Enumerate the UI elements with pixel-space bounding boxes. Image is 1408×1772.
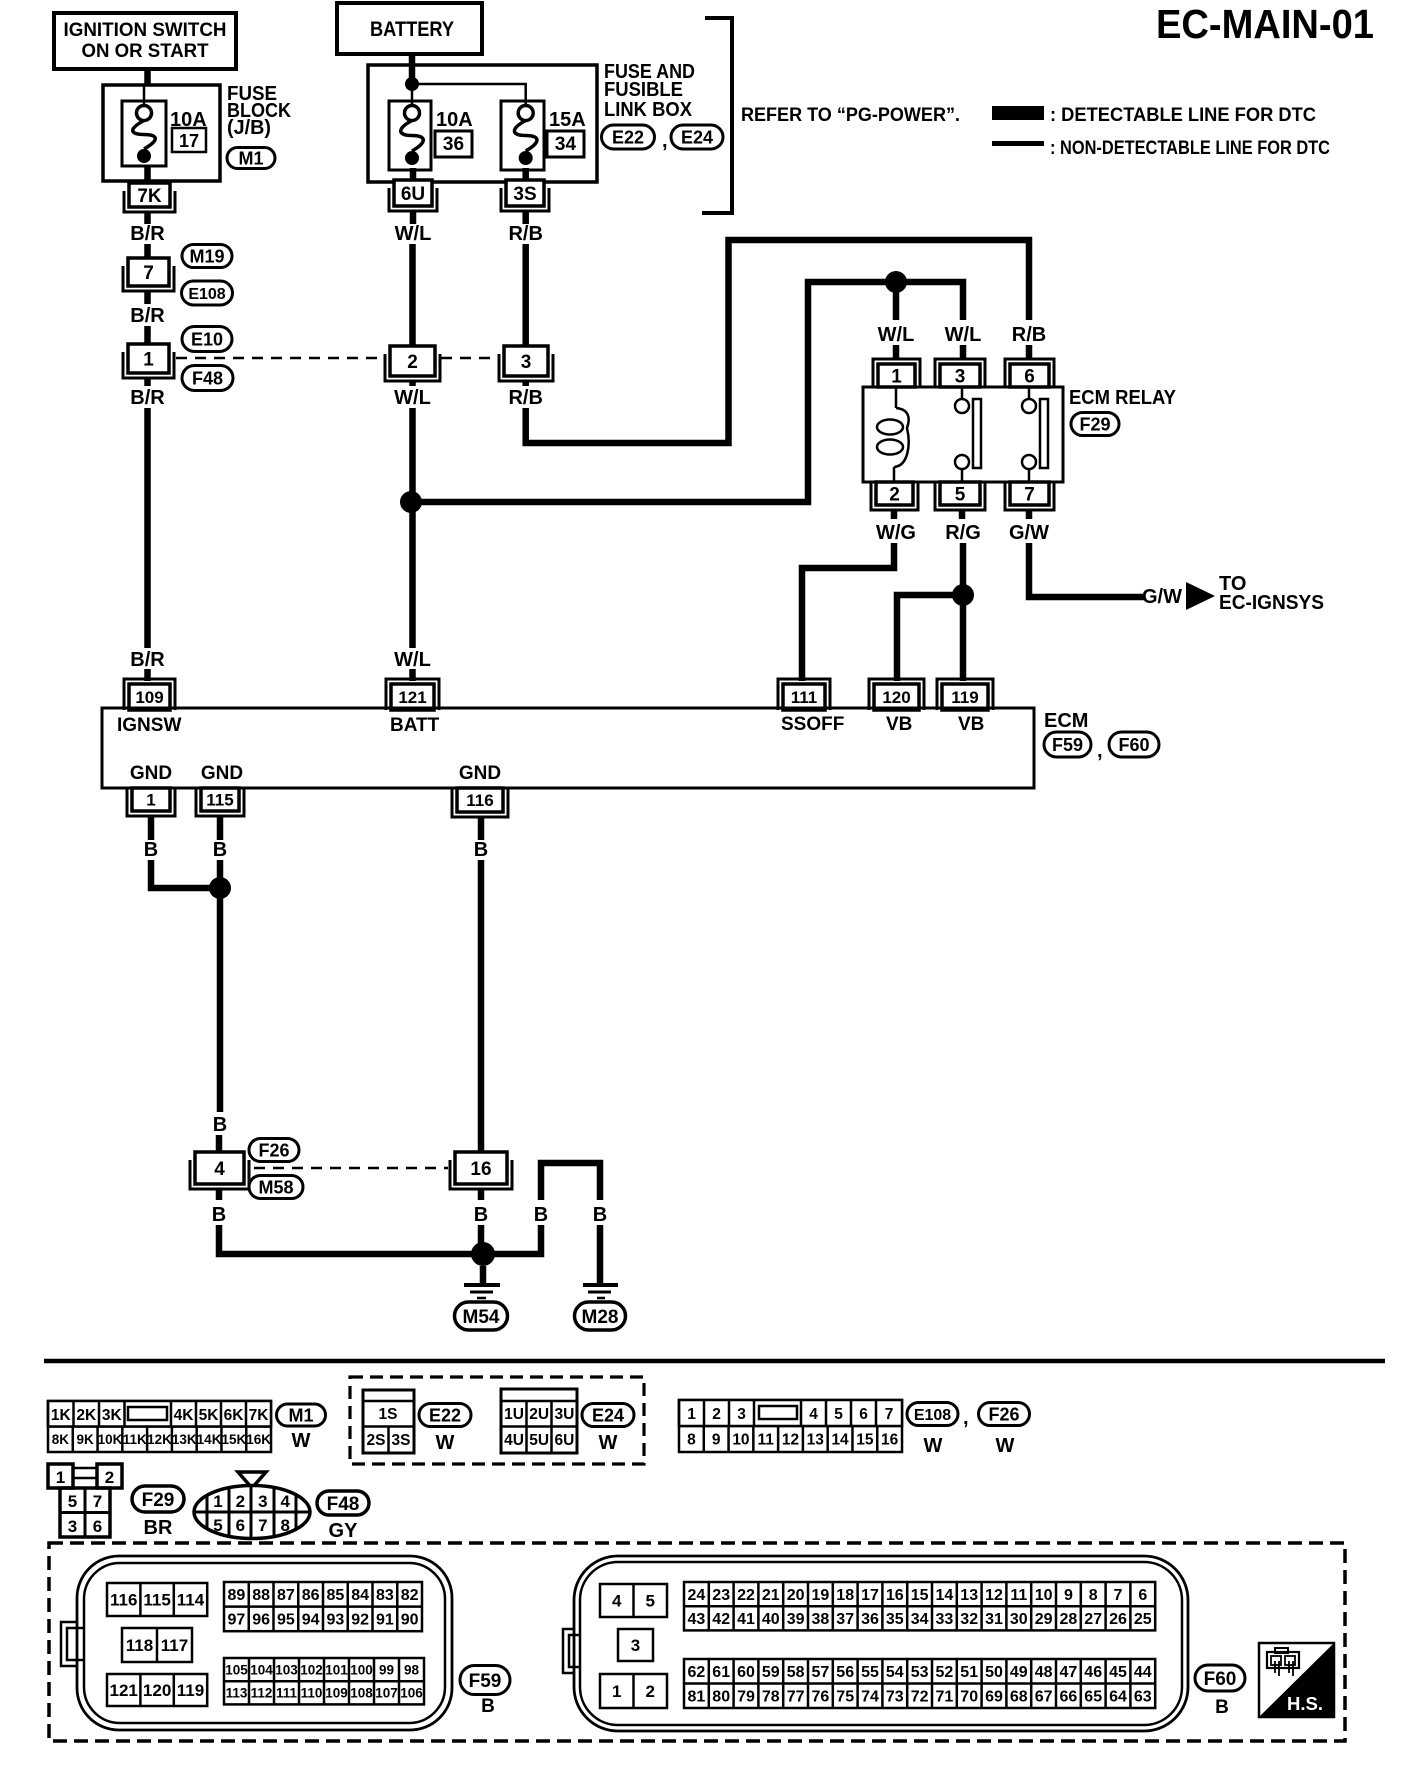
svg-text:B: B: [534, 1204, 548, 1226]
svg-text:GND: GND: [459, 763, 501, 784]
connector F48 oval: [317, 1491, 369, 1515]
svg-text:F48: F48: [192, 368, 223, 388]
wire: [1026, 510, 1033, 519]
wire: [891, 510, 898, 519]
separator line: [44, 1359, 1385, 1364]
svg-text:8K: 8K: [52, 1432, 70, 1447]
svg-text:3S: 3S: [392, 1432, 411, 1449]
svg-text:6K: 6K: [224, 1407, 245, 1424]
svg-text:W/L: W/L: [395, 223, 432, 245]
junction: [885, 271, 907, 293]
svg-text:4: 4: [214, 1159, 225, 1180]
svg-text:13: 13: [807, 1432, 825, 1449]
relay contact B: [1022, 387, 1048, 482]
svg-text:43: 43: [688, 1611, 706, 1628]
svg-text:GY: GY: [329, 1520, 359, 1542]
svg-text:7: 7: [143, 263, 154, 284]
svg-text:F59: F59: [1052, 735, 1083, 755]
svg-text:110: 110: [301, 1686, 323, 1701]
wire: [522, 212, 529, 224]
ignition switch box: [54, 13, 236, 69]
svg-text:57: 57: [812, 1664, 830, 1681]
svg-text:M58: M58: [258, 1177, 293, 1197]
svg-text:53: 53: [911, 1664, 929, 1681]
svg-text:2: 2: [646, 1682, 655, 1701]
junction: [209, 877, 231, 899]
wire: [478, 1225, 485, 1254]
svg-text:66: 66: [1060, 1689, 1078, 1706]
connector F26 oval: [249, 1139, 299, 1162]
svg-text:F26: F26: [988, 1404, 1019, 1424]
svg-text:32: 32: [960, 1611, 978, 1628]
connector E24 pin grid: [501, 1389, 577, 1453]
svg-text:W/G: W/G: [876, 522, 916, 544]
svg-text:74: 74: [861, 1689, 879, 1706]
wire: [409, 669, 416, 681]
svg-text:29: 29: [1035, 1611, 1053, 1628]
svg-text:W: W: [924, 1435, 943, 1457]
svg-text:102: 102: [300, 1662, 323, 1677]
svg-text:77: 77: [787, 1689, 805, 1706]
relay pin 5: [935, 482, 985, 510]
svg-text:33: 33: [936, 1611, 954, 1628]
legend non-detectable line: [992, 137, 1330, 159]
wire loop to M28: [483, 1163, 600, 1283]
svg-text:5U: 5U: [529, 1432, 549, 1449]
relay pin 2: [871, 482, 918, 510]
wire W/G to SSOFF: [802, 543, 894, 681]
svg-text:3S: 3S: [513, 184, 536, 205]
svg-text:10K: 10K: [98, 1432, 123, 1447]
svg-text:120: 120: [143, 1681, 171, 1700]
ECM box: [102, 708, 1034, 788]
connector F29 oval: [132, 1486, 184, 1512]
svg-text:117: 117: [161, 1636, 188, 1655]
svg-text:15A: 15A: [549, 109, 586, 131]
arrow to EC-IGNSYS: [1186, 582, 1215, 610]
svg-text:99: 99: [379, 1662, 394, 1677]
svg-text:70: 70: [960, 1689, 978, 1706]
junction: [405, 77, 419, 91]
svg-text:E10: E10: [191, 329, 223, 349]
fuse and fusible link box: [368, 65, 597, 182]
svg-text:109: 109: [135, 688, 163, 707]
svg-text:89: 89: [227, 1587, 245, 1604]
battery box: [337, 3, 482, 54]
svg-text:95: 95: [277, 1612, 295, 1629]
svg-text:121: 121: [110, 1681, 138, 1700]
svg-text:4: 4: [809, 1406, 818, 1423]
svg-text:M28: M28: [582, 1307, 619, 1328]
wire: [411, 84, 414, 105]
svg-text:,: ,: [662, 130, 668, 152]
svg-text:84: 84: [351, 1587, 369, 1604]
svg-text:E24: E24: [592, 1405, 624, 1425]
svg-text:2K: 2K: [76, 1407, 97, 1424]
svg-text:R/G: R/G: [945, 522, 981, 544]
svg-text:F29: F29: [142, 1490, 175, 1511]
F59 cells 121 120 119: [107, 1674, 207, 1706]
svg-text:50: 50: [985, 1664, 1003, 1681]
wire: [216, 1189, 223, 1200]
connector 2: [385, 354, 440, 381]
wire R/B: [522, 244, 529, 346]
connector E22 oval: [419, 1404, 471, 1427]
ECM terminal 116: [452, 788, 508, 817]
wire: [412, 84, 526, 105]
svg-text:1: 1: [687, 1406, 696, 1423]
svg-text:R/B: R/B: [508, 223, 542, 245]
svg-text:7: 7: [1114, 1587, 1123, 1604]
svg-text:61: 61: [712, 1664, 730, 1681]
connector 7K: [124, 191, 175, 212]
svg-text:34: 34: [911, 1611, 929, 1628]
svg-text:G/W: G/W: [1009, 522, 1049, 544]
svg-text:B/R: B/R: [130, 223, 165, 245]
fuse and fusible link box label: [604, 61, 695, 121]
svg-text:B: B: [481, 1696, 495, 1717]
GND labels: [130, 763, 501, 784]
svg-text:107: 107: [375, 1686, 398, 1701]
svg-text:80: 80: [712, 1689, 730, 1706]
svg-text:11K: 11K: [123, 1432, 147, 1447]
svg-text:B: B: [212, 1204, 226, 1226]
svg-text:11: 11: [1010, 1587, 1027, 1604]
svg-text:44: 44: [1134, 1664, 1152, 1681]
svg-text:35: 35: [886, 1611, 904, 1628]
connector 3S: [501, 188, 549, 211]
H.S. data monitor mark: [1259, 1643, 1334, 1717]
svg-text:1: 1: [213, 1492, 222, 1511]
connector F59 housing: [61, 1556, 452, 1730]
svg-text:23: 23: [712, 1587, 730, 1604]
svg-text:11: 11: [758, 1432, 775, 1449]
connector F26 oval: [979, 1403, 1030, 1426]
svg-text:3: 3: [68, 1517, 77, 1536]
svg-text:17: 17: [179, 131, 199, 151]
svg-text:115: 115: [206, 791, 233, 810]
ground M54 oval: [455, 1302, 508, 1330]
svg-text:SSOFF: SSOFF: [781, 714, 844, 735]
svg-text:F48: F48: [327, 1494, 360, 1515]
junction: [400, 491, 422, 513]
svg-text:82: 82: [401, 1587, 419, 1604]
svg-text:97: 97: [227, 1612, 245, 1629]
svg-text:6: 6: [859, 1406, 868, 1423]
svg-text:96: 96: [252, 1612, 270, 1629]
wire: [893, 345, 900, 359]
connector E108 oval: [907, 1403, 958, 1426]
svg-text:E108: E108: [914, 1407, 951, 1424]
connector 4: [190, 1160, 249, 1189]
svg-text:EC-IGNSYS: EC-IGNSYS: [1219, 592, 1324, 614]
svg-text:87: 87: [277, 1587, 295, 1604]
svg-text:38: 38: [812, 1611, 830, 1628]
ground M28: [583, 1285, 618, 1298]
svg-text:7: 7: [1024, 484, 1035, 505]
svg-text:IGNITION SWITCH: IGNITION SWITCH: [64, 19, 227, 41]
wire: [144, 378, 151, 386]
wire: [144, 212, 151, 224]
svg-text:16K: 16K: [246, 1432, 271, 1447]
svg-text:4K: 4K: [174, 1407, 195, 1424]
wire: [144, 68, 151, 85]
svg-text:4: 4: [280, 1492, 290, 1511]
svg-text:78: 78: [762, 1689, 780, 1706]
wire: [148, 816, 155, 840]
svg-text:42: 42: [712, 1611, 730, 1628]
fuse rating box 17: [172, 128, 206, 152]
svg-text:BATTERY: BATTERY: [370, 18, 454, 41]
svg-text:16: 16: [886, 1587, 904, 1604]
connector E108 oval: [182, 281, 233, 305]
svg-text:79: 79: [737, 1689, 755, 1706]
connector E22 oval: [602, 125, 655, 149]
connector F59 oval: [1044, 732, 1091, 757]
svg-text:92: 92: [351, 1612, 369, 1629]
svg-text:(J/B): (J/B): [227, 117, 271, 139]
wire: [960, 345, 967, 359]
svg-text:72: 72: [911, 1689, 929, 1706]
svg-text:73: 73: [886, 1689, 904, 1706]
svg-text:109: 109: [325, 1686, 348, 1701]
svg-text:46: 46: [1084, 1664, 1102, 1681]
svg-text:2: 2: [105, 1468, 114, 1487]
wire: [478, 1189, 485, 1200]
svg-text:3: 3: [737, 1406, 746, 1423]
connector F29 pin view: [48, 1464, 122, 1537]
svg-text:12: 12: [985, 1587, 1003, 1604]
svg-text:B: B: [474, 1204, 488, 1226]
svg-text:1: 1: [891, 366, 902, 387]
F60 cells 4 5: [600, 1584, 667, 1617]
svg-text:15: 15: [911, 1587, 929, 1604]
svg-text:IGNSW: IGNSW: [117, 715, 181, 736]
svg-text:B: B: [213, 839, 227, 861]
dashed link wire: [254, 1167, 448, 1170]
svg-text:31: 31: [985, 1611, 1003, 1628]
svg-text:113: 113: [226, 1686, 248, 1701]
svg-text:49: 49: [1010, 1664, 1028, 1681]
svg-text:10A: 10A: [436, 109, 473, 131]
svg-text:15K: 15K: [221, 1432, 246, 1447]
wire: [893, 288, 900, 320]
svg-text:26: 26: [1109, 1611, 1127, 1628]
svg-text:W/L: W/L: [945, 324, 982, 346]
svg-text:121: 121: [398, 688, 426, 707]
svg-text:27: 27: [1084, 1611, 1102, 1628]
connector M1 pin grid: [48, 1401, 271, 1452]
svg-text:69: 69: [985, 1689, 1003, 1706]
svg-text:40: 40: [762, 1611, 780, 1628]
wire: [144, 669, 151, 681]
bracket: [702, 18, 732, 213]
ECM pin labels: [117, 714, 984, 736]
svg-text:6U: 6U: [401, 184, 425, 205]
svg-text:98: 98: [404, 1662, 420, 1677]
svg-text:112: 112: [251, 1686, 273, 1701]
svg-text:3: 3: [521, 352, 532, 373]
svg-text:20: 20: [787, 1587, 805, 1604]
svg-text:R/B: R/B: [1012, 324, 1046, 346]
svg-text:B: B: [474, 839, 488, 861]
connector F48 pin view: [194, 1472, 310, 1539]
svg-text:8: 8: [687, 1432, 696, 1449]
wire: [144, 326, 151, 344]
svg-text:13K: 13K: [172, 1432, 197, 1447]
connector 6U: [389, 188, 437, 211]
svg-text:94: 94: [302, 1612, 320, 1629]
svg-text:M19: M19: [189, 246, 224, 266]
svg-text:3: 3: [258, 1492, 267, 1511]
svg-text:9: 9: [712, 1432, 721, 1449]
svg-text:101: 101: [325, 1662, 348, 1677]
svg-text:12: 12: [782, 1432, 799, 1449]
svg-text:118: 118: [126, 1636, 153, 1655]
svg-text:1: 1: [612, 1682, 621, 1701]
ECM terminal 120: [869, 679, 924, 710]
svg-text:B/R: B/R: [130, 305, 165, 327]
wire W/L branch to relay: [411, 282, 963, 502]
connector E10 oval: [182, 327, 232, 352]
svg-text:2: 2: [889, 484, 900, 505]
svg-text:: DETECTABLE LINE FOR DTC: : DETECTABLE LINE FOR DTC: [1050, 104, 1316, 126]
svg-text:13: 13: [960, 1587, 978, 1604]
ECM terminal 109: [124, 679, 175, 710]
connector M19 oval: [182, 245, 232, 268]
svg-text:5: 5: [213, 1516, 222, 1535]
svg-text:111: 111: [276, 1686, 298, 1701]
svg-text:B/R: B/R: [130, 649, 165, 671]
svg-text:,: ,: [963, 1407, 969, 1429]
svg-text:5: 5: [68, 1492, 77, 1511]
svg-text:91: 91: [376, 1612, 394, 1629]
svg-text:1S: 1S: [379, 1406, 398, 1423]
svg-text:1: 1: [56, 1468, 65, 1487]
svg-text:39: 39: [787, 1611, 805, 1628]
ECM terminal 111: [778, 679, 830, 710]
svg-text:BR: BR: [144, 1517, 173, 1539]
ECM terminal 119: [937, 679, 993, 710]
svg-text:58: 58: [787, 1664, 805, 1681]
svg-text:24: 24: [688, 1587, 706, 1604]
svg-text:W: W: [599, 1432, 618, 1454]
svg-text:W: W: [292, 1430, 311, 1452]
wire: [480, 1266, 487, 1284]
connector M1 oval: [277, 1404, 326, 1426]
ECM terminal 115: [196, 788, 244, 816]
wire G/W to EC-IGNSYS: [1029, 543, 1144, 597]
svg-text:EC-MAIN-01: EC-MAIN-01: [1156, 1, 1374, 47]
label TO EC-IGNSYS: [1219, 573, 1324, 614]
svg-text:5: 5: [955, 484, 966, 505]
svg-text:F26: F26: [258, 1140, 289, 1160]
fuse block label: [227, 83, 291, 139]
svg-text:FUSIBLE: FUSIBLE: [604, 79, 683, 101]
wire: [217, 816, 224, 840]
svg-text:3K: 3K: [102, 1407, 123, 1424]
relay contact A: [955, 387, 981, 482]
wire R/G: [960, 543, 967, 681]
svg-text:7: 7: [93, 1492, 102, 1511]
connector E24 oval: [582, 1404, 634, 1427]
svg-text:B: B: [593, 1204, 607, 1226]
svg-text:36: 36: [861, 1611, 879, 1628]
svg-text:6: 6: [93, 1517, 102, 1536]
wire: [216, 1135, 223, 1152]
relay pin 7: [1005, 482, 1054, 510]
svg-text:119: 119: [177, 1681, 204, 1700]
F59 cells 118 117: [122, 1628, 192, 1662]
svg-text:71: 71: [936, 1689, 954, 1706]
svg-text:41: 41: [737, 1611, 755, 1628]
dashed link wire: [441, 357, 498, 360]
svg-text:37: 37: [836, 1611, 854, 1628]
svg-text:16: 16: [881, 1432, 899, 1449]
svg-text:56: 56: [836, 1664, 854, 1681]
wire W/L: [409, 244, 416, 346]
svg-text:59: 59: [762, 1664, 780, 1681]
svg-text:63: 63: [1134, 1689, 1152, 1706]
svg-text:14: 14: [831, 1432, 849, 1449]
svg-text:F60: F60: [1118, 735, 1149, 755]
svg-text:F60: F60: [1204, 1669, 1237, 1690]
ECM relay body: [863, 387, 1063, 482]
wire to ground junction: [219, 1225, 483, 1254]
F60 cell 3: [618, 1629, 653, 1661]
M1 grid top row: [48, 1401, 271, 1427]
svg-text:116: 116: [466, 791, 493, 810]
connector F60 housing: [563, 1556, 1188, 1731]
wire: [410, 212, 417, 224]
wire long B: [478, 860, 485, 1152]
svg-text:1K: 1K: [51, 1407, 72, 1424]
svg-text:F29: F29: [1079, 414, 1110, 434]
wire: [143, 85, 146, 105]
svg-text:25: 25: [1134, 1611, 1152, 1628]
svg-text:5: 5: [646, 1592, 655, 1611]
svg-text:17: 17: [861, 1587, 879, 1604]
connector M1 oval: [227, 148, 275, 169]
connector 7: [123, 266, 174, 291]
fuse 17 10A: [122, 101, 207, 166]
svg-text:60: 60: [737, 1664, 755, 1681]
fuse 36 10A: [389, 101, 473, 170]
svg-text:14K: 14K: [197, 1432, 222, 1447]
dashed group box E22 E24: [350, 1377, 644, 1464]
svg-text:51: 51: [960, 1664, 978, 1681]
svg-text:81: 81: [688, 1689, 706, 1706]
svg-text:100: 100: [350, 1662, 373, 1677]
wire: [478, 816, 485, 840]
fuse block J/B box: [103, 85, 220, 181]
svg-text:12K: 12K: [147, 1432, 172, 1447]
connector F29 oval: [1071, 413, 1119, 436]
svg-text:6U: 6U: [554, 1432, 574, 1449]
svg-text:108: 108: [350, 1686, 373, 1701]
relay pin 6: [1005, 359, 1054, 387]
svg-text:62: 62: [688, 1664, 706, 1681]
svg-text:83: 83: [376, 1587, 394, 1604]
svg-text:85: 85: [326, 1587, 344, 1604]
junction: [952, 584, 974, 606]
svg-text:1U: 1U: [504, 1406, 524, 1423]
svg-text:ECM: ECM: [1044, 710, 1088, 732]
connector F48 oval: [182, 366, 233, 391]
fuse rating box 36: [435, 131, 472, 157]
svg-text:86: 86: [302, 1587, 320, 1604]
svg-text:8: 8: [1089, 1587, 1098, 1604]
